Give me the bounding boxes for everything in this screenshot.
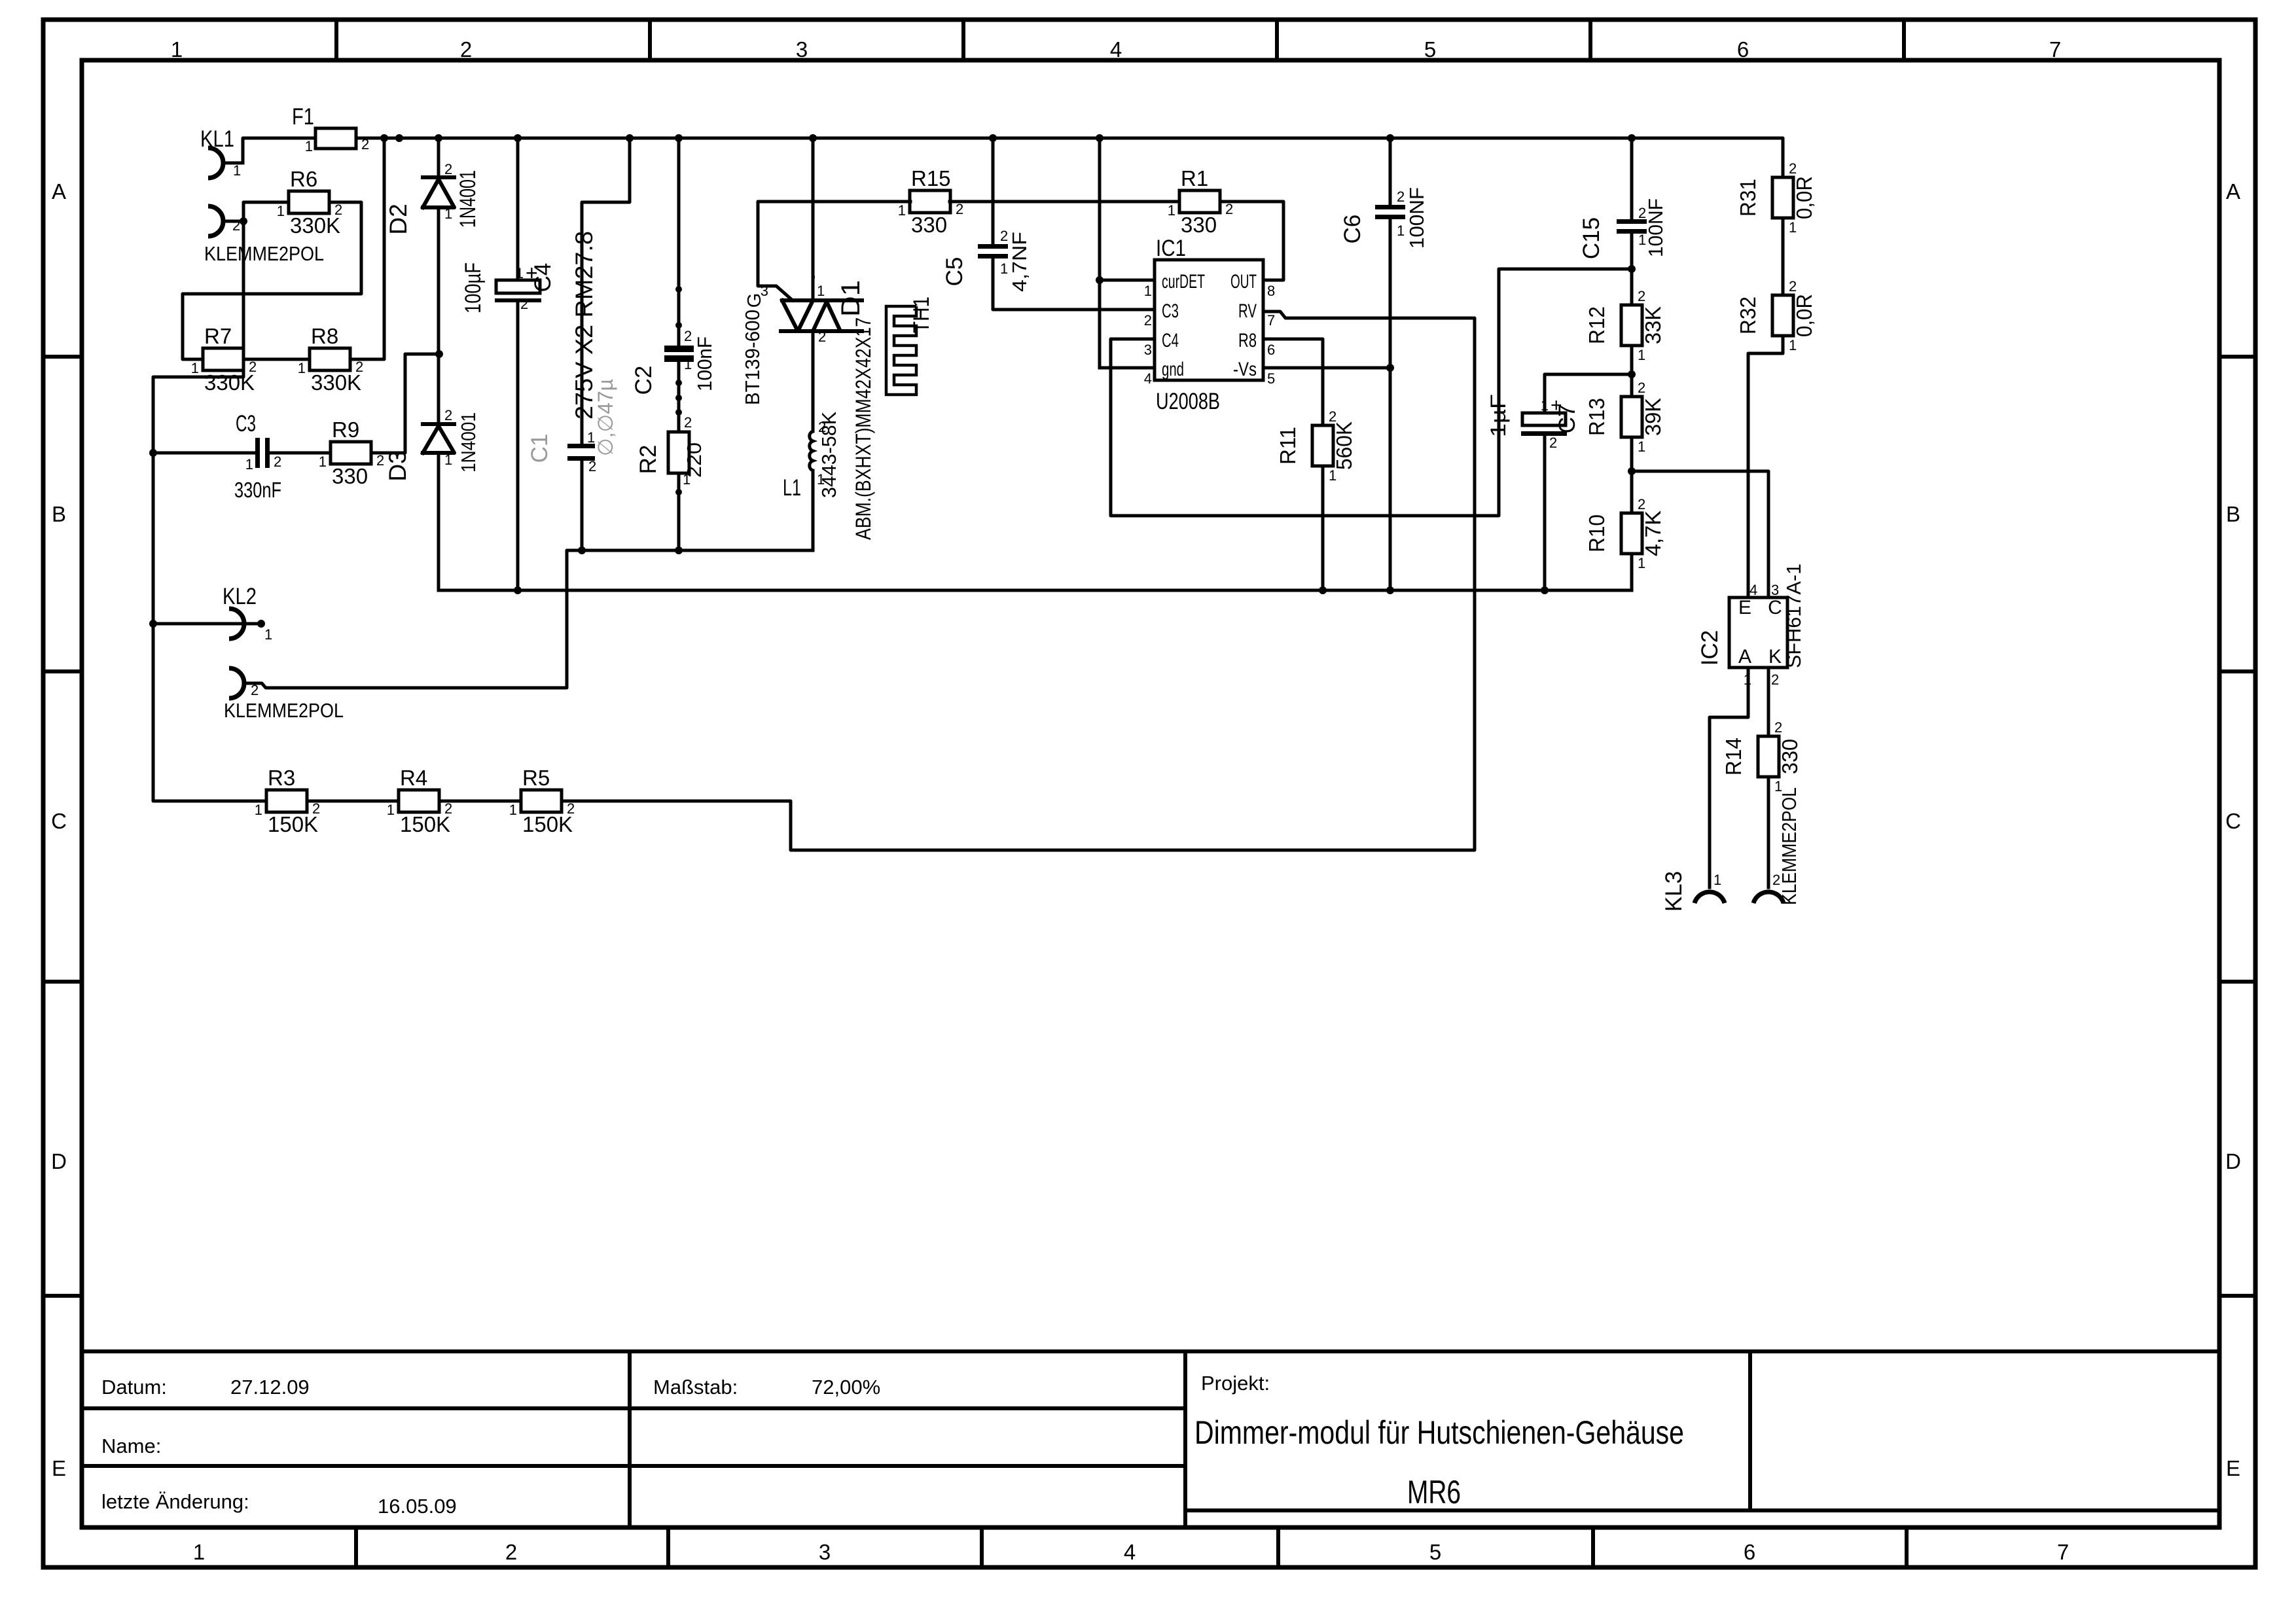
svg-text:E: E [1738,597,1751,618]
svg-text:1: 1 [191,360,199,376]
svg-text:8: 8 [1267,283,1275,299]
svg-text:330K: 330K [290,213,340,238]
svg-text:1: 1 [683,471,691,488]
resistor R6 330K [277,167,343,238]
wire IC2 A pin to KL3 pin1 [1710,668,1748,887]
svg-text:D3: D3 [384,450,411,481]
svg-text:Projekt:: Projekt: [1201,1372,1270,1395]
wire node to IC2 C pin [1632,471,1768,597]
svg-text:A: A [1738,646,1751,668]
svg-text:33K: 33K [1641,306,1665,344]
svg-text:2: 2 [1225,201,1233,217]
wire node to C7 [1545,374,1632,413]
resistor R5 150K [509,766,575,836]
svg-text:2: 2 [1000,228,1008,244]
svg-text:TH1: TH1 [909,296,934,333]
wire IC1 R8 pin to R11 [1263,339,1323,425]
svg-text:150K: 150K [268,812,318,836]
capacitor C6 100NF [1375,205,1405,219]
svg-text:1: 1 [1638,347,1645,363]
svg-text:2: 2 [1774,719,1782,736]
junction -Vs / C6 [1386,364,1394,372]
svg-text:R8: R8 [1238,330,1257,351]
svg-text:1: 1 [898,202,906,219]
svg-text:2: 2 [1144,312,1152,329]
svg-text:Datum:: Datum: [101,1376,167,1399]
svg-text:MR6: MR6 [1407,1474,1461,1510]
wire C1 branch from bus [582,138,630,444]
svg-text:C4: C4 [1162,330,1179,351]
wire IC1 C4 pin to C15 node [1111,269,1632,516]
svg-text:2: 2 [818,329,826,345]
svg-text:2: 2 [249,359,257,375]
wire C4 branch from bus [516,138,520,280]
optocoupler IC2 SFH617A-1 [1697,563,1805,688]
svg-text:100NF: 100NF [1405,187,1428,249]
svg-text:1: 1 [444,205,452,222]
svg-text:2: 2 [1638,205,1646,221]
svg-text:2: 2 [956,201,963,217]
connector KL1 [200,126,243,179]
svg-text:R5: R5 [522,766,550,790]
svg-text:6: 6 [1267,342,1275,358]
svg-text:R11: R11 [1276,427,1300,465]
svg-text:D: D [2225,1149,2241,1173]
svg-text:150K: 150K [400,812,450,836]
svg-text:72,00%: 72,00% [812,1376,880,1399]
svg-text:2: 2 [361,136,369,152]
svg-text:2: 2 [684,328,692,344]
svg-text:KL3: KL3 [1661,871,1687,912]
junction R11 on rail [1319,586,1327,594]
svg-text:1: 1 [1638,555,1645,571]
svg-text:1: 1 [1329,467,1336,484]
svg-text:C15: C15 [1579,217,1604,259]
svg-text:A: A [2226,179,2240,204]
wire L1 bottom [812,471,815,550]
wire C5 to IC1 C3 pin [993,259,1155,310]
svg-text:L1: L1 [783,475,801,501]
junction C15 on bus [1628,134,1636,142]
svg-text:gnd: gnd [1162,359,1184,380]
svg-text:1: 1 [171,37,183,62]
svg-text:C5: C5 [942,257,967,287]
svg-text:1: 1 [1168,202,1175,219]
capacitor C3 330nF (horizontal) [234,411,281,502]
junction C5 on bus [989,134,997,142]
svg-text:2: 2 [334,202,342,218]
junction R12/R13/C7 [1628,370,1636,378]
svg-text:R6: R6 [290,167,317,191]
resistor R12 33K [1585,288,1665,363]
junction C1 bottom [578,546,586,554]
svg-text:Name:: Name: [101,1435,161,1457]
svg-text:5: 5 [1267,370,1275,387]
junction artifacts on C2 column [675,286,682,293]
resistor R9 330 [319,418,385,488]
diode D3 1N4001 [384,407,480,482]
wire lower rail [439,589,1632,592]
svg-text:1: 1 [1638,438,1645,455]
wire C2/R2 branch from bus [677,138,681,346]
resistor R32 0,0R [1736,278,1816,353]
resistor R7 330K [191,324,257,395]
junction KL2 pin1 [257,620,265,628]
svg-text:4,7NF: 4,7NF [1008,232,1031,292]
junction C3 left [149,449,157,457]
svg-text:330: 330 [1181,213,1217,237]
resistor R31 0,0R [1736,160,1816,236]
svg-text:330K: 330K [204,370,255,395]
wire R9 pin2 to D2/D3 junction [371,354,439,453]
svg-text:1: 1 [509,802,517,818]
svg-text:curDET: curDET [1162,271,1205,293]
svg-text:OUT: OUT [1230,271,1257,293]
svg-text:2: 2 [444,161,452,177]
svg-text:R3: R3 [268,766,295,790]
connector KLEMME2POL (mate of KL1) [204,206,324,265]
wire R32 to IC2 E pin [1748,336,1783,597]
svg-text:2: 2 [444,800,452,817]
svg-text:C: C [2225,809,2241,833]
svg-text:1: 1 [1713,872,1721,888]
wire R4 to R5 [439,800,521,803]
resistor R14 330 [1721,719,1802,794]
resistor R15 330 [898,166,964,237]
svg-text:7: 7 [1267,312,1275,329]
svg-text:BT139-600: BT139-600 [741,310,764,405]
junction curDET pin [1096,276,1103,284]
svg-text:1: 1 [387,802,395,818]
wire KL2 pin1 stub [153,622,261,626]
svg-text:2: 2 [1638,496,1645,512]
svg-text:4,7K: 4,7K [1641,510,1665,556]
svg-text:D1: D1 [836,280,865,317]
svg-text:1: 1 [817,471,825,488]
svg-text:1N4001: 1N4001 [456,170,480,228]
svg-text:1: 1 [1397,223,1405,239]
svg-text:2: 2 [1789,160,1797,177]
svg-text:2: 2 [355,359,363,375]
junction C15 bottom node [1628,265,1636,273]
svg-text:KLEMME2POL: KLEMME2POL [1778,787,1801,905]
svg-text:R1: R1 [1181,166,1208,190]
svg-text:KL2: KL2 [223,584,257,609]
connector KL2 [223,584,272,643]
wire C15 to R12 [1630,234,1634,305]
svg-text:1: 1 [193,1540,205,1564]
svg-text:1: 1 [1144,283,1152,299]
svg-text:C3: C3 [236,411,256,437]
svg-text:4: 4 [1124,1540,1136,1564]
svg-text:4: 4 [1110,37,1122,62]
svg-text:100NF: 100NF [1644,198,1667,257]
svg-text:2: 2 [684,414,692,431]
svg-text:16.05.09: 16.05.09 [378,1495,457,1518]
svg-text:330: 330 [911,213,947,237]
wire D2 anode to D3 cathode [437,207,440,354]
svg-text:2: 2 [444,407,452,423]
capacitor C1 275V X2 (value texts) [527,231,617,474]
svg-text:1N4001: 1N4001 [457,412,480,473]
junction D2 anode / D3 cathode / R9 [435,350,443,358]
capacitor C4 100uF (polarized) [461,261,556,313]
wire R8 pin2 up to bus [350,138,384,359]
svg-text:R10: R10 [1585,514,1609,552]
svg-text:R2: R2 [636,445,661,474]
triac D1 BT139-600 [741,274,865,405]
junction at KL1b pin2 [240,217,247,225]
resistor R1 330 [1168,166,1234,237]
junction artifact below R2 [675,489,682,495]
junction R13/R10/IC2-C [1628,467,1636,475]
svg-text:4: 4 [1749,582,1757,598]
heatsink TH1 [886,296,934,395]
wire C3 to R9 [270,452,331,455]
svg-text:6: 6 [1737,37,1749,62]
connector KLEMME2POL (mate of KL3) [1753,787,1801,905]
svg-text:ABM.(BXHXT)MM42X42X17: ABM.(BXHXT)MM42X42X17 [852,317,875,540]
wire IC2 K pin to R14 [1767,668,1770,736]
svg-text:R12: R12 [1585,306,1609,344]
wire IC1 -Vs to C6 column [1263,366,1390,370]
svg-text:IC1: IC1 [1156,236,1186,261]
connector KLEMME2POL (mate of KL2) [224,668,344,722]
svg-text:2: 2 [1789,278,1797,294]
svg-text:2: 2 [588,458,596,474]
resistor R13 39K [1585,380,1665,455]
junction C1 branch on bus [626,134,634,142]
svg-text:3: 3 [819,1540,831,1564]
resistor R8 330K [298,324,364,395]
svg-text:R13: R13 [1585,398,1609,436]
svg-text:2: 2 [1329,408,1336,425]
resistor R10 4,7K [1585,496,1665,571]
svg-text:7: 7 [2049,37,2061,62]
wire R11 to lower rail [1321,466,1325,590]
capacitor C2 100nF [631,328,716,395]
svg-text:100nF: 100nF [693,336,716,391]
svg-text:1: 1 [305,138,313,154]
svg-text:C1: C1 [527,434,552,463]
wire curDET stub [1100,279,1155,282]
svg-text:1: 1 [1789,219,1797,236]
svg-text:4: 4 [1144,370,1152,387]
junction C4 on bus [514,134,522,142]
junction on bus [395,134,403,142]
wire gnd stub [1100,366,1155,370]
wire D2 cathode to bus [437,138,440,175]
svg-text:1: 1 [298,360,306,376]
svg-text:0,0R: 0,0R [1792,176,1816,219]
svg-text:R14: R14 [1721,738,1746,776]
svg-text:R8: R8 [311,324,338,348]
svg-text:C: C [1768,597,1782,618]
wire R31 to R32 [1782,218,1785,295]
svg-text:1: 1 [319,454,327,470]
svg-text:+: + [1551,395,1562,416]
junction curDET on bus [1096,134,1103,142]
junction artifacts below C2 [675,380,682,386]
svg-text:B: B [52,502,66,526]
svg-text:E: E [2226,1456,2240,1480]
wire C1 bottom [581,461,584,550]
wire R5 pin2 to IC1 RV pin [562,312,1475,850]
svg-text:D: D [51,1149,67,1173]
svg-text:330: 330 [1778,739,1802,774]
wire R12 to R13 node [1630,346,1634,397]
wire KLEMME2POL(KL2b) pin2 to C1 bottom [245,550,582,688]
svg-text:R15: R15 [911,166,951,190]
wire C1/R2/L1 bottom link [582,549,813,552]
wire D3 anode to lower rail [437,453,440,590]
svg-text:3: 3 [796,37,808,62]
svg-text:R4: R4 [400,766,427,790]
svg-text:R31: R31 [1736,179,1760,217]
svg-text:6: 6 [1744,1540,1755,1564]
svg-text:5: 5 [1429,1540,1441,1564]
svg-text:1: 1 [264,626,272,643]
svg-text:2: 2 [460,37,472,62]
wire R13 to R10 [1630,437,1634,513]
svg-text:U2008B: U2008B [1156,389,1220,414]
svg-text:∅,∅47µ: ∅,∅47µ [594,379,617,456]
svg-text:1: 1 [1541,397,1549,414]
wire C6 to lower rail [1389,220,1392,590]
capacitor C15 100NF [1617,219,1647,234]
wire C4 to lower rail [516,302,520,590]
op-amp IC1 U2008B [1144,236,1276,414]
svg-text:330: 330 [332,464,368,488]
svg-text:RV: RV [1238,300,1257,322]
wire R15 to R1 [950,200,1179,204]
wire KL1 pin to fuse F1 [243,138,315,162]
wire top supply bus from F1 to R31 [356,138,1783,177]
svg-text:2: 2 [818,419,826,435]
wire R3 to R4 [307,800,399,803]
svg-text:+: + [526,261,538,285]
svg-text:2: 2 [1638,380,1645,396]
svg-text:1µF: 1µF [1486,394,1510,437]
svg-text:1: 1 [817,283,825,299]
svg-text:150K: 150K [522,812,573,836]
junction R2 bottom [675,546,683,554]
svg-text:1: 1 [277,203,285,219]
svg-text:1: 1 [1638,232,1646,248]
wire IC1 curDET to bus [1098,138,1102,368]
wire C15 from bus [1630,138,1634,219]
connector KL3 [1661,871,1725,912]
svg-text:C2: C2 [631,366,656,395]
svg-text:K: K [1768,646,1782,668]
wire C2 to R2 [677,362,681,432]
wire C7 to lower rail [1543,436,1547,590]
wire C5 branch from bus [992,138,995,244]
svg-text:2: 2 [312,800,320,817]
svg-text:B: B [2226,502,2240,526]
svg-text:2: 2 [567,800,575,817]
svg-text:KLEMME2POL: KLEMME2POL [224,699,344,722]
junction triac on bus [809,134,817,142]
wire R10 to lower rail end [1630,554,1634,590]
junction C6 on rail [1386,586,1394,594]
svg-text:0,0R: 0,0R [1792,294,1816,337]
svg-text:letzte Änderung:: letzte Änderung: [101,1490,249,1513]
svg-text:IC2: IC2 [1697,630,1723,666]
diode D2 1N4001 [385,161,480,235]
svg-text:3: 3 [1771,582,1779,598]
title block [82,1349,2219,1353]
wire R7 pin2 to R8 pin1 [243,358,310,361]
svg-text:Maßstab:: Maßstab: [653,1376,738,1399]
junction R8 net on bus [380,134,388,142]
svg-text:2: 2 [1549,435,1557,451]
wire triac to L1 [812,331,815,431]
junction KL2 net on left rail [149,620,157,628]
svg-text:Dimmer-modul für Hutschienen-G: Dimmer-modul für Hutschienen-Gehäuse [1194,1414,1684,1451]
junction D2 on bus [435,134,442,142]
svg-text:C6: C6 [1340,215,1365,244]
wire R6 pin1 / KLEMME2POL(KL1b) net down the left side [153,202,289,801]
svg-text:39K: 39K [1641,398,1665,436]
wire triac gate to R15 [758,202,910,300]
wire R14 to KL3 pin2 [1767,777,1770,887]
svg-text:2: 2 [232,217,240,234]
fuse F1 [292,104,369,154]
svg-text:E: E [52,1456,66,1480]
resistor R11 560K [1276,408,1356,484]
junction C7 on rail [1541,586,1549,594]
svg-text:100µF: 100µF [461,262,486,313]
svg-text:R32: R32 [1736,296,1760,334]
svg-text:2: 2 [1638,288,1645,304]
svg-text:F1: F1 [292,104,314,130]
svg-text:D2: D2 [385,204,412,234]
junction C2 on bus [675,134,683,142]
wire C6 from bus [1389,138,1392,205]
svg-text:7: 7 [2057,1540,2069,1564]
svg-text:1: 1 [587,429,595,446]
wire C3 row from left rail [153,452,255,455]
svg-text:R9: R9 [332,418,359,442]
svg-text:A: A [52,179,66,204]
svg-text:330K: 330K [311,370,361,395]
svg-text:2: 2 [505,1540,517,1564]
junction C4 on rail [514,586,522,594]
svg-text:2: 2 [251,682,259,698]
svg-text:560K: 560K [1332,421,1356,470]
svg-text:2: 2 [274,454,281,470]
wire triac branch from bus [812,138,815,300]
svg-text:1: 1 [444,452,452,468]
svg-text:2: 2 [1771,671,1779,688]
svg-text:R7: R7 [204,324,232,348]
wire R6 pin2 to R7 pin1 [183,202,361,359]
svg-text:2: 2 [1772,872,1780,888]
svg-text:SFH617A-1: SFH617A-1 [1782,563,1805,668]
svg-text:1: 1 [684,356,692,372]
svg-text:330nF: 330nF [234,478,281,502]
svg-text:C3: C3 [1162,300,1179,322]
svg-text:27.12.09: 27.12.09 [230,1376,310,1399]
svg-text:1: 1 [516,265,524,281]
resistor R4 150K [387,766,453,836]
svg-text:5: 5 [1424,37,1436,62]
svg-text:1: 1 [1000,260,1008,277]
svg-text:C: C [51,809,67,833]
svg-text:1: 1 [255,802,262,818]
svg-text:-Vs: -Vs [1233,359,1257,380]
